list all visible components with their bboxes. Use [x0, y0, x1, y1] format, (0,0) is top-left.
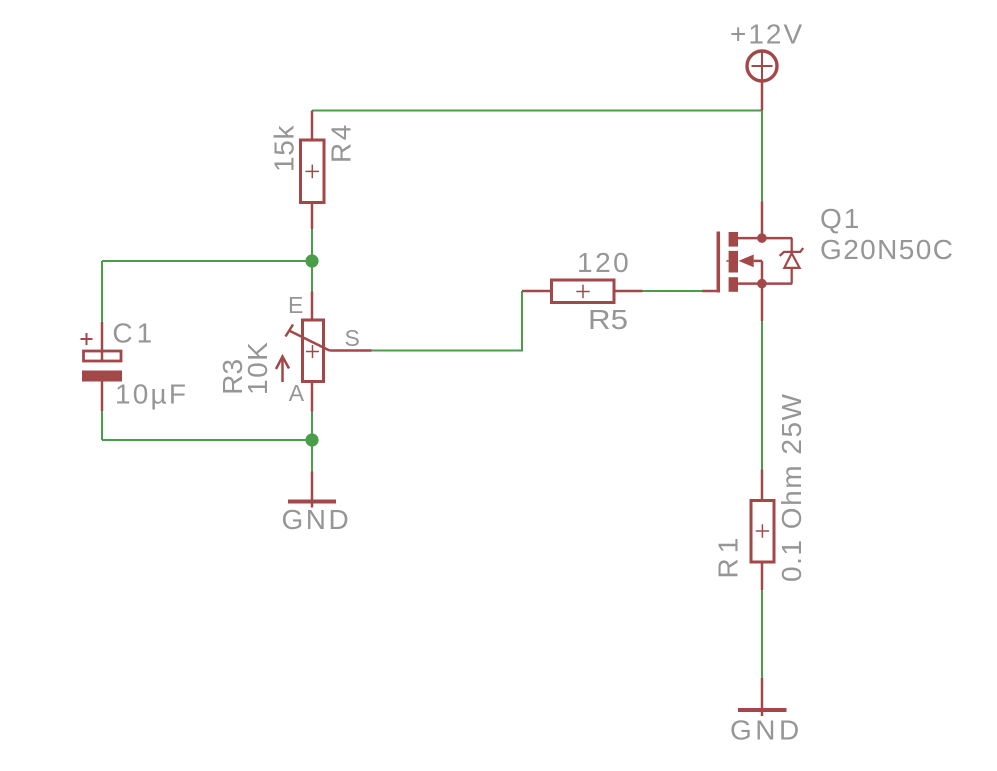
- wire junction B to GND: [311, 440, 313, 472]
- net label GND1: [282, 504, 352, 535]
- wire R3 bottom to junction B: [311, 412, 313, 441]
- wire C1 top drop: [101, 261, 103, 322]
- net label +12V: [730, 18, 804, 49]
- name label C1: [112, 318, 156, 349]
- svg-text:S: S: [345, 325, 360, 351]
- resistor R1: [751, 470, 774, 591]
- junction B: [305, 433, 318, 446]
- potentiometer R3: [276, 292, 372, 412]
- wire junction A to R3 E: [311, 261, 313, 292]
- wire source down: [761, 321, 763, 470]
- name label R5: [588, 304, 628, 335]
- svg-text:C1: C1: [112, 318, 156, 349]
- svg-text:10µF: 10µF: [115, 379, 188, 410]
- svg-text:E: E: [288, 292, 303, 318]
- value label 10uF: [115, 379, 188, 410]
- svg-text:120: 120: [577, 247, 631, 278]
- value label 120: [577, 247, 631, 278]
- svg-text:10K: 10K: [242, 341, 273, 395]
- value label 10K: [242, 341, 273, 395]
- name label R3: [217, 359, 248, 395]
- svg-text:A: A: [289, 380, 305, 406]
- wire S run: [372, 291, 523, 351]
- svg-text:+12V: +12V: [730, 18, 804, 49]
- svg-text:0.1 Ohm 25W: 0.1 Ohm 25W: [776, 393, 807, 582]
- value label 15k: [269, 124, 300, 172]
- net label GND2: [730, 715, 803, 746]
- junction A: [305, 254, 318, 267]
- svg-text:G20N50C: G20N50C: [820, 234, 953, 265]
- pin label A: [289, 380, 305, 406]
- wire C1 bottom drop: [101, 411, 103, 440]
- name label R4: [326, 122, 357, 163]
- wire top rail: [312, 110, 762, 112]
- value label 0.1 Ohm 25W: [776, 393, 807, 582]
- svg-text:15k: 15k: [269, 124, 300, 172]
- svg-text:R5: R5: [588, 304, 628, 335]
- wire R5 to gate: [642, 290, 703, 292]
- resistor R5: [522, 280, 643, 303]
- pin label E: [288, 292, 303, 318]
- transistor Q1 MOSFET: [702, 202, 803, 322]
- wire R4 bottom to junction A: [311, 229, 313, 262]
- wire bottom rail: [102, 439, 312, 441]
- svg-text:R4: R4: [326, 122, 357, 163]
- wire R1 to GND2: [761, 590, 763, 678]
- name label R1: [713, 533, 744, 579]
- ground GND2: [738, 678, 787, 716]
- pin label S: [345, 325, 360, 351]
- svg-text:GND: GND: [730, 715, 803, 746]
- wire left rail top: [102, 260, 312, 262]
- resistor R4: [301, 111, 325, 230]
- capacitor C1: [81, 322, 123, 411]
- power +12V symbol: [747, 51, 777, 111]
- svg-text:Q1: Q1: [820, 203, 861, 234]
- ground GND1: [288, 472, 336, 508]
- svg-text:R1: R1: [713, 533, 744, 579]
- name label Q1: [820, 203, 861, 234]
- value label G20N50C: [820, 234, 953, 265]
- svg-text:GND: GND: [282, 504, 352, 535]
- wire drain drop: [761, 111, 763, 202]
